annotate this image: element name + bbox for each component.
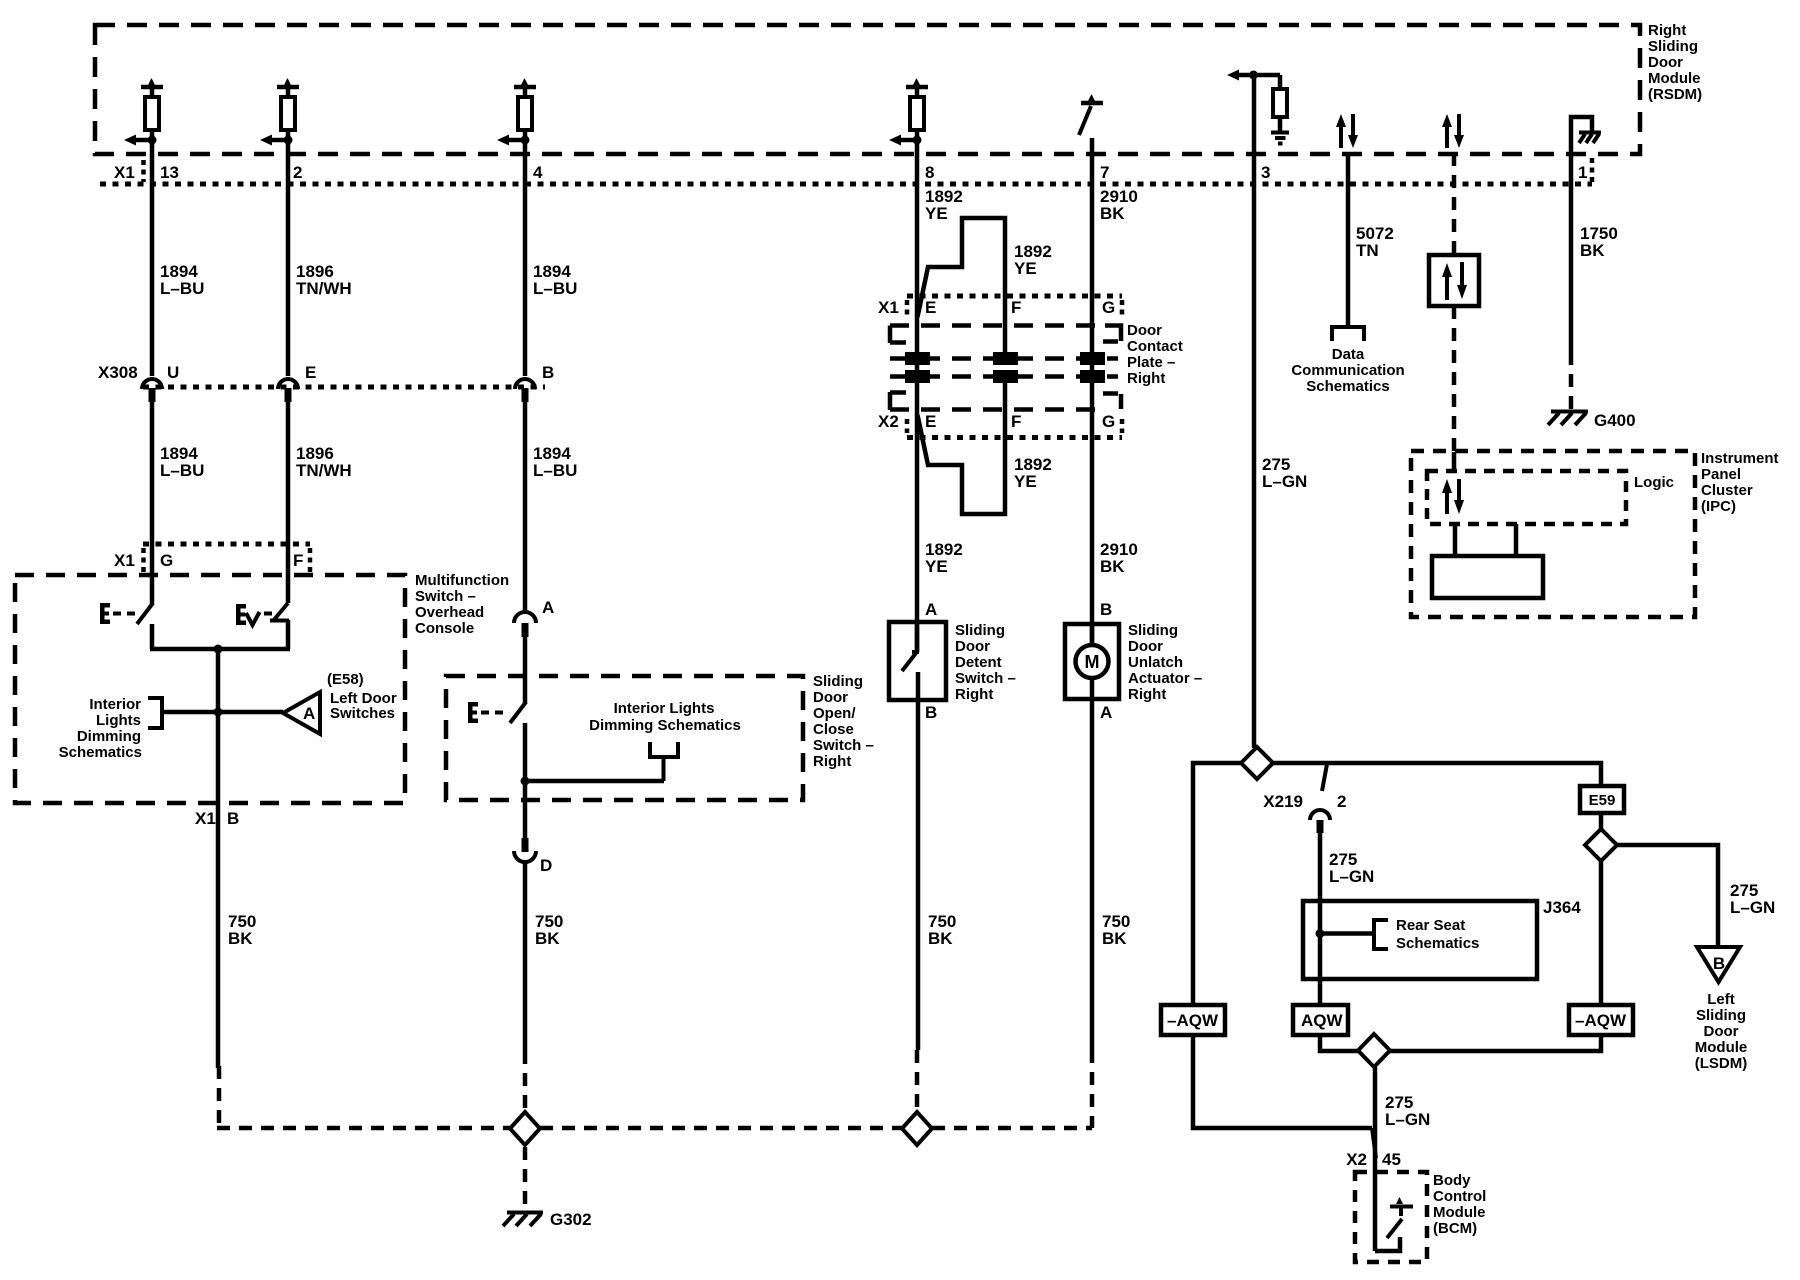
svg-text:Module: Module: [1648, 70, 1701, 87]
wire 1892 YE pin 8 down through door contact plate: [917, 130, 963, 652]
svg-text:(RSDM): (RSDM): [1648, 86, 1702, 103]
svg-text:(LSDM): (LSDM): [1695, 1055, 1748, 1072]
RSDM output driver pin 4: [497, 78, 536, 146]
svg-text:Sliding: Sliding: [1128, 622, 1178, 639]
connector X308 dotted line: [98, 363, 545, 387]
svg-text:Door: Door: [955, 638, 990, 655]
svg-text:13: 13: [160, 163, 179, 182]
svg-text:L–BU: L–BU: [160, 461, 204, 480]
svg-text:Switch –: Switch –: [813, 737, 874, 754]
node interior lights dimming tap: [148, 698, 283, 728]
connector X219 terminal 2: [1263, 764, 1346, 833]
svg-text:Sliding: Sliding: [1648, 38, 1698, 55]
wire serial data dashed to IPC: [1452, 153, 1457, 255]
svg-text:L–BU: L–BU: [533, 279, 577, 298]
svg-text:Overhead: Overhead: [415, 604, 484, 621]
svg-text:L–GN: L–GN: [1385, 1110, 1430, 1129]
svg-text:B: B: [925, 703, 937, 722]
wire 2910 BK to unlatch actuator B: [1100, 540, 1138, 619]
connector X308 terminal U: [142, 363, 179, 402]
splice diamond AQW: [1358, 1034, 1390, 1067]
svg-text:Cluster: Cluster: [1701, 482, 1753, 499]
svg-text:Body: Body: [1433, 1172, 1471, 1189]
svg-text:Switches: Switches: [330, 705, 395, 722]
connector X1 multifunction switch dotted row: [114, 544, 310, 575]
module Interior Lights Dimming dashed box: [446, 676, 803, 800]
svg-text:E59: E59: [1589, 792, 1616, 809]
wire jumper E to F above door contact plate: [918, 218, 1052, 352]
svg-text:B: B: [1713, 954, 1725, 973]
motor M sliding door unlatch actuator - right: [1065, 624, 1119, 699]
svg-text:X2: X2: [1346, 1150, 1367, 1169]
wire 275 L-GN splice to BCM: [1375, 1067, 1430, 1251]
svg-text:A: A: [542, 598, 554, 617]
svg-text:L–GN: L–GN: [1329, 867, 1374, 886]
wire 1894 L-BU X308 B to switch A: [525, 402, 577, 612]
wire 750 BK actuator A to ground bus: [1092, 699, 1130, 1128]
symbol logic up-down arrows: [1442, 479, 1464, 514]
label Multifunction Switch - Overhead Console: [415, 572, 509, 637]
wire 2910 BK pin 7 down through door contact plate: [1092, 138, 1138, 645]
svg-text:Dimming Schematics: Dimming Schematics: [589, 717, 741, 734]
svg-text:Instrument: Instrument: [1701, 450, 1779, 467]
svg-text:X1: X1: [114, 163, 135, 182]
wire E59 splice to right AQW: [1599, 861, 1604, 1005]
svg-text:G400: G400: [1594, 411, 1636, 430]
ground G302: [503, 1147, 592, 1229]
svg-text:TN: TN: [1356, 241, 1379, 260]
door contact plate dashed outline top: [890, 326, 1121, 344]
svg-text:E: E: [305, 363, 316, 382]
svg-text:A: A: [303, 704, 315, 723]
svg-text:F: F: [1011, 298, 1021, 317]
label Right Sliding Door Module (RSDM): [1648, 22, 1702, 103]
switch left door jamb (G): [100, 603, 153, 624]
svg-text:Interior Lights: Interior Lights: [614, 700, 715, 717]
svg-text:Dimming: Dimming: [77, 728, 141, 745]
svg-text:YE: YE: [1014, 472, 1037, 491]
svg-text:Door: Door: [1648, 54, 1683, 71]
svg-text:B: B: [1100, 600, 1112, 619]
splice diamond E59: [1585, 813, 1617, 861]
wire splice to E59 branch: [1273, 763, 1601, 786]
wire 275 L-GN pin 3 down to splice: [1254, 75, 1307, 748]
wire 5072 TN pin to data communication: [1348, 153, 1394, 327]
label Instrument Panel Cluster (IPC): [1701, 450, 1779, 515]
ground G400: [1548, 411, 1636, 430]
RSDM output driver pin 2: [260, 78, 299, 146]
svg-text:(BCM): (BCM): [1433, 1220, 1477, 1237]
svg-text:Plate –: Plate –: [1127, 354, 1175, 371]
svg-text:Schematics: Schematics: [1306, 378, 1389, 395]
wire 1894 L-BU pin 13 to X308 U: [152, 130, 204, 376]
svg-text:Rear Seat: Rear Seat: [1396, 917, 1465, 934]
svg-text:Switch –: Switch –: [415, 588, 476, 605]
svg-text:X219: X219: [1263, 792, 1303, 811]
svg-text:Actuator –: Actuator –: [1128, 670, 1202, 687]
svg-text:Multifunction: Multifunction: [415, 572, 509, 589]
RSDM serial data pin (5072) up-down arrows: [1336, 114, 1358, 148]
svg-text:L–BU: L–BU: [533, 461, 577, 480]
svg-text:X1: X1: [878, 298, 899, 317]
svg-text:E: E: [925, 298, 936, 317]
off-page triangle A left door switches (E58): [283, 671, 397, 734]
svg-text:1: 1: [1578, 163, 1587, 182]
switch sliding door open/close: [468, 637, 530, 838]
svg-text:Contact: Contact: [1127, 338, 1183, 355]
label Interior Lights Dimming Schematics: [59, 696, 142, 761]
label Sliding Door Unlatch Actuator - Right: [1128, 622, 1202, 703]
svg-text:YE: YE: [1014, 259, 1037, 278]
RSDM serial data pin (IPC) up-down arrows: [1442, 114, 1464, 148]
svg-text:X1: X1: [195, 809, 216, 828]
svg-text:Right: Right: [955, 686, 993, 703]
switch BCM internal driver: [1375, 1197, 1413, 1251]
label Left Sliding Door Module (LSDM): [1695, 991, 1748, 1072]
wire 1750 BK pin 1 to G400: [1571, 184, 1618, 410]
svg-text:A: A: [1100, 703, 1112, 722]
module Instrument Panel Cluster dashed box: [1411, 451, 1695, 617]
RSDM output driver pin 8: [889, 78, 928, 146]
svg-text:YE: YE: [925, 204, 948, 223]
RSDM switch driver pin 7: [1079, 94, 1103, 135]
svg-text:(E58): (E58): [327, 671, 364, 688]
connector X1 dotted harness line: [100, 158, 1592, 184]
svg-text:–AQW: –AQW: [1167, 1011, 1219, 1030]
svg-text:BK: BK: [1580, 241, 1605, 260]
net label -AQW left: [1161, 1005, 1225, 1035]
svg-text:F: F: [1011, 412, 1021, 431]
svg-text:Door: Door: [1127, 322, 1162, 339]
svg-text:M: M: [1085, 652, 1100, 672]
svg-text:Module: Module: [1695, 1039, 1748, 1056]
label Door Contact Plate - Right: [1127, 322, 1183, 387]
svg-text:Data: Data: [1332, 346, 1365, 363]
svg-text:Panel: Panel: [1701, 466, 1741, 483]
label Body Control Module (BCM): [1433, 1172, 1486, 1237]
svg-text:YE: YE: [925, 557, 948, 576]
block Logic dashed box: [1427, 471, 1674, 524]
svg-text:BK: BK: [535, 929, 560, 948]
switch sliding door detent - right: [889, 622, 946, 700]
module Body Control Module dashed box: [1355, 1172, 1427, 1262]
svg-text:Door: Door: [1128, 638, 1163, 655]
svg-text:AQW: AQW: [1301, 1011, 1344, 1030]
svg-text:BK: BK: [1102, 929, 1127, 948]
net label -AQW right: [1569, 1005, 1633, 1035]
svg-text:X1: X1: [114, 551, 135, 570]
svg-text:BK: BK: [1100, 204, 1125, 223]
wire J364 to AQW: [1318, 934, 1323, 1005]
svg-text:Detent: Detent: [955, 654, 1002, 671]
connector A sliding door open/close switch: [514, 598, 554, 637]
splice diamond 275 L-GN: [1241, 747, 1273, 779]
svg-text:BK: BK: [228, 929, 253, 948]
svg-text:G: G: [160, 551, 173, 570]
svg-text:4: 4: [533, 163, 543, 182]
door contact plate contact pads row 1: [890, 352, 1118, 365]
connector X308 terminal E: [278, 363, 316, 402]
svg-text:Interior: Interior: [89, 696, 141, 713]
svg-text:7: 7: [1100, 163, 1109, 182]
svg-text:3: 3: [1261, 163, 1270, 182]
RSDM output driver pin 13: [124, 78, 163, 146]
svg-text:Sliding: Sliding: [1696, 1007, 1746, 1024]
svg-text:Open/: Open/: [813, 705, 856, 722]
wire 1894 L-BU X308 U to switch G: [152, 402, 204, 604]
svg-text:Door: Door: [1704, 1023, 1739, 1040]
svg-text:Control: Control: [1433, 1188, 1486, 1205]
svg-text:Console: Console: [415, 620, 474, 637]
RSDM internal ground pin 1: [1571, 117, 1601, 184]
svg-text:L–GN: L–GN: [1730, 898, 1775, 917]
svg-text:Communication: Communication: [1291, 362, 1404, 379]
svg-text:Right: Right: [1127, 370, 1165, 387]
wire switch outputs joined: [150, 620, 290, 712]
block E59: [1580, 786, 1624, 813]
connector X1 door contact plate dotted row: [878, 296, 1122, 317]
svg-text:Module: Module: [1433, 1204, 1486, 1221]
svg-text:F: F: [293, 551, 303, 570]
wire 275 L-GN X219 to J364: [1320, 833, 1374, 933]
svg-text:2: 2: [1337, 792, 1346, 811]
connector X2 terminal 45 labels: [1346, 1150, 1401, 1169]
svg-text:Close: Close: [813, 721, 854, 738]
svg-text:TN/WH: TN/WH: [296, 279, 352, 298]
wire ground bus dashed: [217, 1066, 1092, 1130]
svg-text:45: 45: [1382, 1150, 1401, 1169]
svg-text:Schematics: Schematics: [59, 744, 142, 761]
splice diamond right: [902, 1112, 932, 1145]
wire left AQW to BCM X2: [1193, 1035, 1376, 1158]
net label AQW center: [1293, 1005, 1348, 1035]
svg-text:X308: X308: [98, 363, 138, 382]
svg-text:E: E: [925, 412, 936, 431]
svg-text:Sliding: Sliding: [955, 622, 1005, 639]
switch right door jamb (F): [236, 603, 289, 625]
svg-text:Door: Door: [813, 689, 848, 706]
junction block J364 rear seat: [1303, 898, 1581, 979]
node rear seat schematics tap: [1316, 917, 1480, 952]
svg-text:2: 2: [293, 163, 302, 182]
svg-text:B: B: [542, 363, 554, 382]
door contact plate contact pads row 2: [890, 370, 1118, 383]
wire 750 BK detent switch B to ground bus: [917, 700, 956, 1113]
block IPC display: [1432, 524, 1543, 598]
off-page triangle B left sliding door module: [1697, 947, 1740, 982]
label Data Communication Schematics: [1291, 327, 1404, 395]
wire jumper E to F below door contact plate: [918, 383, 1052, 514]
svg-text:Left: Left: [1707, 991, 1735, 1008]
connector X2 door contact plate dotted row: [878, 412, 1122, 438]
wire serial data dashed into IPC: [1452, 306, 1457, 471]
svg-text:G: G: [1102, 298, 1115, 317]
svg-text:BK: BK: [1100, 557, 1125, 576]
svg-text:X2: X2: [878, 412, 899, 431]
module RSDM dashed box: [95, 25, 1640, 154]
svg-text:G302: G302: [550, 1210, 592, 1229]
wire 1896 TN/WH X308 E to switch F: [288, 402, 352, 603]
module Multifunction Switch dashed box: [15, 575, 405, 803]
svg-text:U: U: [167, 363, 179, 382]
svg-text:Switch –: Switch –: [955, 670, 1016, 687]
svg-text:–AQW: –AQW: [1575, 1011, 1627, 1030]
svg-text:Logic: Logic: [1634, 474, 1674, 491]
svg-text:D: D: [540, 856, 552, 875]
svg-text:Unlatch: Unlatch: [1128, 654, 1183, 671]
wire X1 B output of multifunction switch: [195, 712, 256, 1068]
splice diamond left: [510, 1112, 540, 1145]
RSDM ground pin 3 with internal resistor: [1227, 70, 1289, 144]
wire splice to left AQW branch: [1193, 763, 1241, 1005]
svg-text:J364: J364: [1543, 898, 1581, 917]
svg-text:Right: Right: [1128, 686, 1166, 703]
wire 275 L-GN to LSDM triangle B: [1617, 845, 1775, 948]
svg-text:Right: Right: [813, 753, 851, 770]
connector X1 pin labels: [114, 163, 1587, 182]
label Sliding Door Detent Switch - Right: [955, 622, 1016, 703]
wire AQW to splice diamond: [1320, 1035, 1358, 1051]
svg-text:L–GN: L–GN: [1262, 472, 1307, 491]
svg-text:Right: Right: [1648, 22, 1686, 39]
svg-text:Lights: Lights: [96, 712, 141, 729]
svg-text:B: B: [227, 809, 239, 828]
symbol serial data bus box with arrows: [1429, 255, 1479, 306]
svg-text:BK: BK: [928, 929, 953, 948]
wire 1896 TN/WH pin 2 to X308 E: [288, 130, 352, 376]
svg-text:8: 8: [925, 163, 934, 182]
label Interior Lights Dimming Schematics (console): [525, 700, 741, 781]
svg-text:G: G: [1102, 412, 1115, 431]
wire 1894 L-BU pin 4 to X308 B: [525, 130, 577, 376]
svg-text:A: A: [925, 600, 937, 619]
wire 1892 YE to detent switch A: [925, 540, 963, 619]
connector D sliding door open/close switch: [514, 838, 552, 875]
door contact plate dashed outline bottom: [890, 392, 1121, 410]
svg-text:TN/WH: TN/WH: [296, 461, 352, 480]
svg-text:(IPC): (IPC): [1701, 498, 1736, 515]
svg-text:L–BU: L–BU: [160, 279, 204, 298]
wire right AQW to splice diamond: [1390, 1035, 1601, 1051]
svg-text:Schematics: Schematics: [1396, 935, 1479, 952]
label Sliding Door Open/Close Switch - Right: [813, 673, 874, 770]
connector X308 terminal B: [515, 363, 554, 402]
wire 750 BK console ground: [525, 863, 563, 1113]
svg-text:Sliding: Sliding: [813, 673, 863, 690]
